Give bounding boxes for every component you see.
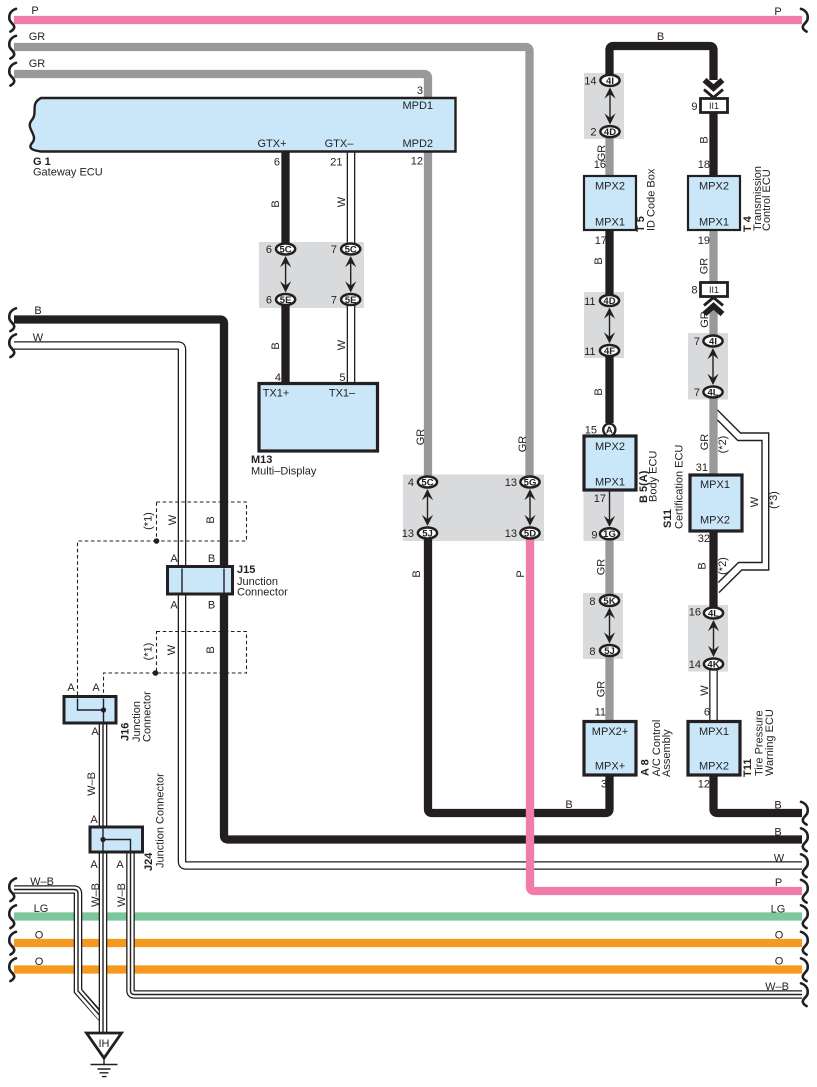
connector oval 5G pin13 bbox=[520, 477, 539, 489]
svg-text:TX1–: TX1– bbox=[329, 388, 356, 400]
svg-text:5C: 5C bbox=[421, 477, 433, 488]
svg-text:4: 4 bbox=[275, 372, 281, 384]
connector shield box 4I/4L bbox=[688, 333, 728, 400]
svg-text:S11: S11 bbox=[662, 509, 674, 528]
ECU S11 Certification ECU box bbox=[690, 475, 742, 531]
svg-text:Multi–Display: Multi–Display bbox=[251, 466, 317, 478]
wire GR 5J to A8 pin11 bbox=[605, 657, 613, 722]
svg-text:MPX+: MPX+ bbox=[595, 761, 625, 773]
ECU T5 ID Code Box bbox=[584, 176, 636, 230]
ECU T11 Tire Pressure Warning ECU box bbox=[688, 722, 740, 776]
wire LG bus bbox=[14, 912, 802, 920]
J16 internal step link bbox=[78, 699, 104, 722]
svg-text:Certification ECU: Certification ECU bbox=[674, 445, 686, 529]
break squiggle B left bbox=[9, 308, 16, 331]
S11 labels MPX1 MPX2 bbox=[700, 479, 730, 527]
svg-text:O: O bbox=[35, 930, 44, 942]
svg-text:MPX1: MPX1 bbox=[595, 217, 625, 229]
break squiggle P right bbox=[801, 9, 808, 32]
ground IH triangle bbox=[87, 1033, 122, 1058]
connector oval 4F pin11 bbox=[600, 345, 619, 357]
svg-text:5D: 5D bbox=[524, 528, 536, 539]
svg-text:13: 13 bbox=[402, 528, 414, 540]
svg-text:A: A bbox=[606, 425, 613, 436]
svg-text:W: W bbox=[699, 685, 711, 696]
svg-text:18: 18 bbox=[698, 159, 710, 171]
wire W 5E to M13 TX1- bbox=[347, 306, 356, 386]
svg-text:14: 14 bbox=[689, 659, 701, 671]
wire W left bus through J15 bbox=[12, 346, 182, 567]
connector oval 4L pin7 bbox=[703, 387, 722, 399]
svg-text:31: 31 bbox=[696, 462, 708, 474]
break squiggle GR2 left bbox=[9, 63, 16, 86]
svg-text:MPX1: MPX1 bbox=[699, 217, 729, 229]
svg-text:II1: II1 bbox=[709, 101, 719, 111]
connector pair arrow 5G/5D bbox=[524, 489, 535, 526]
svg-text:GTX+: GTX+ bbox=[257, 138, 286, 150]
J24 internal step link bbox=[103, 829, 131, 851]
svg-text:W–B: W–B bbox=[765, 981, 789, 993]
svg-text:Assembly: Assembly bbox=[661, 729, 673, 777]
svg-text:B: B bbox=[657, 31, 664, 43]
svg-text:A: A bbox=[90, 814, 98, 826]
svg-text:MPX1: MPX1 bbox=[595, 477, 625, 489]
svg-text:P: P bbox=[775, 877, 782, 889]
G1 name labels bbox=[33, 156, 103, 179]
svg-text:4D: 4D bbox=[604, 127, 616, 138]
wire GR G1 pin12 to 5C bbox=[424, 152, 432, 477]
svg-text:4I: 4I bbox=[606, 76, 614, 87]
wire B left bus through J15 bbox=[14, 320, 224, 567]
svg-text:(*1): (*1) bbox=[143, 643, 155, 661]
T4 labels MPX2 MPX1 bbox=[699, 181, 729, 229]
dashed box 2 labels bbox=[143, 643, 218, 661]
wire B 4F to A connector bbox=[605, 356, 613, 423]
svg-text:11: 11 bbox=[584, 296, 595, 308]
J16 name vertical bbox=[120, 691, 154, 742]
svg-text:B: B bbox=[205, 516, 217, 523]
svg-text:J24: J24 bbox=[143, 852, 155, 871]
break squiggle B bus right bbox=[801, 828, 808, 851]
svg-text:B: B bbox=[205, 646, 217, 653]
connector shield box 1G bbox=[584, 490, 625, 541]
svg-text:GR: GR bbox=[517, 436, 529, 453]
svg-text:A: A bbox=[170, 600, 178, 612]
break squiggle W-B right bbox=[801, 983, 808, 1006]
svg-text:Warning ECU: Warning ECU bbox=[764, 709, 776, 776]
svg-text:W: W bbox=[166, 644, 178, 655]
svg-text:17: 17 bbox=[595, 235, 607, 247]
T5 labels MPX2 MPX1 bbox=[595, 181, 625, 229]
break squiggle W bus right bbox=[801, 854, 808, 877]
M13 name labels bbox=[251, 454, 317, 478]
wire W GTX- to 5C bbox=[347, 150, 356, 244]
svg-text:9: 9 bbox=[591, 529, 597, 541]
connector oval 5K pin8 bbox=[600, 595, 619, 607]
svg-text:Control ECU: Control ECU bbox=[761, 169, 773, 231]
J24 internal node dot bbox=[100, 837, 105, 842]
svg-text:W: W bbox=[33, 332, 44, 344]
svg-text:5E: 5E bbox=[280, 295, 292, 306]
svg-text:IH: IH bbox=[99, 1038, 110, 1050]
svg-text:6: 6 bbox=[266, 244, 272, 256]
junction connector J16 box bbox=[64, 697, 116, 724]
svg-text:12: 12 bbox=[411, 156, 423, 168]
svg-text:A: A bbox=[67, 682, 75, 694]
chevron arrow into II1 pin9 bbox=[704, 80, 723, 98]
svg-text:5E: 5E bbox=[345, 295, 357, 306]
svg-text:B: B bbox=[411, 570, 423, 577]
svg-text:GR: GR bbox=[596, 559, 608, 576]
svg-text:O: O bbox=[35, 956, 44, 968]
svg-text:B: B bbox=[565, 799, 572, 811]
break squiggle O2 left bbox=[9, 958, 16, 981]
svg-text:5G: 5G bbox=[524, 477, 537, 488]
connector oval 5E pin7 bbox=[341, 294, 360, 306]
connector shield box 5K/5J bbox=[583, 593, 623, 659]
svg-text:11: 11 bbox=[595, 707, 606, 719]
wire B S11 pin32 to 4L bbox=[709, 531, 717, 607]
svg-text:MPX1: MPX1 bbox=[699, 726, 729, 738]
svg-text:5: 5 bbox=[339, 372, 345, 384]
svg-text:17: 17 bbox=[594, 493, 606, 505]
svg-text:MPX2+: MPX2+ bbox=[592, 726, 628, 738]
svg-text:Gateway ECU: Gateway ECU bbox=[33, 167, 103, 179]
J15 internal pin lines bbox=[182, 569, 224, 593]
connector oval 5J pin8 bbox=[600, 645, 619, 657]
svg-text:12: 12 bbox=[698, 779, 710, 791]
svg-text:GR: GR bbox=[699, 311, 711, 328]
svg-text:GTX–: GTX– bbox=[325, 138, 355, 150]
svg-text:(*3): (*3) bbox=[768, 491, 780, 509]
svg-text:8: 8 bbox=[589, 646, 595, 658]
connector pair arrow 5K/5J bbox=[604, 608, 615, 644]
wire W bypass (*3) around S11 bbox=[718, 410, 769, 593]
wire P 5D to bottom P bus bbox=[530, 538, 802, 891]
break squiggle LG right bbox=[801, 905, 808, 928]
svg-text:W–B: W–B bbox=[116, 883, 128, 907]
dashed box 1 labels bbox=[143, 512, 218, 530]
svg-text:(*1): (*1) bbox=[143, 512, 155, 530]
svg-text:W: W bbox=[167, 514, 179, 525]
svg-text:W: W bbox=[749, 496, 761, 507]
svg-text:16: 16 bbox=[594, 159, 606, 171]
svg-text:B: B bbox=[774, 800, 781, 812]
svg-text:Junction Connector: Junction Connector bbox=[155, 773, 167, 868]
svg-text:A: A bbox=[91, 726, 99, 738]
svg-text:GR: GR bbox=[415, 429, 427, 446]
A8 labels MPX2+ MPX+ bbox=[592, 726, 628, 773]
S11 name vertical left side bbox=[662, 445, 686, 529]
break squiggle W-B left bbox=[9, 878, 16, 901]
svg-text:MPX2: MPX2 bbox=[595, 181, 625, 193]
connector pair arrow 5C/5E left bbox=[280, 256, 291, 293]
T4 name vertical bbox=[742, 166, 773, 232]
connector pair arrow 4I/4D bbox=[604, 87, 615, 124]
svg-text:A: A bbox=[90, 859, 98, 871]
break squiggle O1 left bbox=[9, 932, 16, 955]
ECU B5A Body ECU box bbox=[584, 436, 636, 490]
ground stem and hatch bbox=[91, 1058, 118, 1077]
svg-text:B: B bbox=[34, 305, 41, 317]
svg-text:7: 7 bbox=[331, 295, 337, 307]
svg-text:B: B bbox=[774, 827, 781, 839]
node dot upper bbox=[154, 538, 160, 544]
break squiggle O1 right bbox=[801, 932, 808, 955]
connector oval 5C pin6 bbox=[276, 244, 295, 256]
svg-text:B: B bbox=[208, 553, 215, 565]
svg-text:B: B bbox=[593, 257, 605, 264]
connector pair arrow 5C/5E right bbox=[345, 256, 356, 293]
break squiggle P bus right bbox=[801, 880, 808, 903]
svg-text:A 8: A 8 bbox=[640, 759, 652, 776]
connector oval 5C pin7 bbox=[341, 244, 360, 256]
A8 name vertical bbox=[640, 720, 674, 777]
svg-text:MPD2: MPD2 bbox=[402, 138, 433, 150]
connector oval 5J pin13 bbox=[418, 528, 437, 540]
svg-text:GR: GR bbox=[29, 31, 46, 43]
inline connector II1 pin9 box bbox=[701, 99, 728, 113]
break squiggle W left bbox=[9, 334, 16, 357]
wire W 4K to T11 pin6 bbox=[709, 669, 718, 722]
svg-text:13: 13 bbox=[505, 477, 517, 489]
svg-text:1G: 1G bbox=[603, 529, 616, 540]
svg-text:5C: 5C bbox=[345, 244, 357, 255]
connector oval 5E pin6 bbox=[276, 294, 295, 306]
svg-text:W–B: W–B bbox=[86, 772, 98, 796]
svg-text:II1: II1 bbox=[709, 285, 719, 295]
wire B5A pin17 thin lead to 1G bbox=[609, 490, 611, 520]
svg-text:MPX2: MPX2 bbox=[700, 515, 730, 527]
svg-text:4L: 4L bbox=[707, 387, 718, 398]
wire GR bus to G1 MPD1 pin3 bbox=[14, 74, 428, 98]
wire B 5E to M13 TX1+ bbox=[281, 306, 289, 384]
connector oval 4D pin2 bbox=[600, 126, 619, 138]
wire W-B J16 through J24 to ground bbox=[99, 723, 108, 1033]
svg-text:GR: GR bbox=[596, 681, 608, 698]
break squiggle P left bbox=[9, 9, 16, 32]
wire W J15 to bottom W bus bbox=[182, 594, 804, 866]
node dot lower bbox=[153, 670, 159, 676]
wire B T11 pin12 to right edge bbox=[714, 775, 803, 813]
svg-text:6: 6 bbox=[266, 295, 272, 307]
svg-text:4F: 4F bbox=[604, 346, 615, 357]
ECU G1 Gateway ECU box bbox=[30, 98, 456, 152]
break squiggle O2 right bbox=[801, 958, 808, 981]
connector oval 5C pin4 bbox=[418, 477, 437, 489]
svg-text:B: B bbox=[270, 200, 282, 207]
junction connector J24 box bbox=[90, 827, 143, 852]
svg-text:O: O bbox=[775, 930, 784, 942]
svg-text:15: 15 bbox=[585, 425, 597, 437]
svg-text:7: 7 bbox=[694, 336, 700, 348]
svg-text:W: W bbox=[336, 339, 348, 350]
svg-text:Body ECU: Body ECU bbox=[648, 451, 660, 502]
svg-text:14: 14 bbox=[584, 75, 596, 87]
wire B T5 pin17 to 4D bbox=[605, 230, 613, 295]
svg-text:W–B: W–B bbox=[90, 883, 102, 907]
dashed option box (*1) upper bbox=[157, 502, 247, 541]
svg-text:GR: GR bbox=[699, 258, 711, 275]
svg-text:P: P bbox=[31, 5, 38, 17]
svg-text:11: 11 bbox=[584, 346, 595, 358]
connector oval 4I pin7 bbox=[703, 336, 722, 348]
svg-text:8: 8 bbox=[691, 285, 697, 297]
svg-text:W: W bbox=[336, 196, 348, 207]
svg-text:6: 6 bbox=[704, 707, 710, 719]
B5A name vertical bbox=[638, 451, 660, 503]
svg-text:6: 6 bbox=[274, 157, 280, 169]
wire O bus 1 bbox=[14, 939, 802, 947]
connector oval 4K pin14 bbox=[704, 659, 723, 671]
connector oval 4D pin11 bbox=[600, 295, 619, 307]
svg-text:MPX2: MPX2 bbox=[699, 761, 729, 773]
T11 labels MPX1 MPX2 bbox=[699, 726, 729, 773]
junction connector J15 box bbox=[168, 567, 233, 595]
svg-text:ID Code Box: ID Code Box bbox=[646, 168, 658, 231]
svg-text:M13: M13 bbox=[251, 454, 272, 466]
connector circle A pin15 bbox=[603, 424, 615, 437]
svg-text:8: 8 bbox=[589, 596, 595, 608]
connector shield box 4I/4D bbox=[584, 73, 624, 139]
wire B GTX+ to 5C bbox=[281, 152, 289, 244]
wire GR bus to 5G bbox=[14, 47, 530, 476]
break squiggle B branch right bbox=[801, 802, 808, 825]
svg-text:MPD1: MPD1 bbox=[402, 100, 433, 112]
svg-text:Connector: Connector bbox=[237, 587, 288, 599]
svg-text:4L: 4L bbox=[708, 608, 719, 619]
svg-text:3: 3 bbox=[417, 85, 423, 97]
svg-text:LG: LG bbox=[34, 903, 49, 915]
svg-text:W: W bbox=[774, 853, 785, 865]
svg-text:P: P bbox=[774, 6, 781, 18]
connector shield box 5C/5J 5G/5D bbox=[403, 475, 544, 542]
ECU A8 A/C Control Assembly box bbox=[584, 722, 636, 776]
svg-text:LG: LG bbox=[771, 904, 786, 916]
svg-text:16: 16 bbox=[689, 607, 701, 619]
connector shield box 4D/4F bbox=[584, 292, 624, 358]
svg-text:B: B bbox=[270, 342, 282, 349]
svg-text:A: A bbox=[92, 682, 100, 694]
connector oval 1G pin9 bbox=[600, 528, 619, 540]
svg-text:5J: 5J bbox=[604, 646, 615, 657]
svg-text:GR: GR bbox=[699, 434, 711, 451]
svg-text:4D: 4D bbox=[603, 296, 615, 307]
wire GR 1G to 5K bbox=[605, 540, 613, 594]
svg-text:B: B bbox=[697, 562, 709, 569]
wire GR 4L to S11 pin31 bbox=[709, 398, 717, 475]
svg-text:B: B bbox=[208, 600, 215, 612]
svg-text:Connector: Connector bbox=[142, 691, 154, 742]
ECU T4 Transmission Control ECU box bbox=[688, 176, 740, 230]
svg-text:B: B bbox=[699, 136, 711, 143]
chevron arrow into II1 pin8 bbox=[704, 298, 723, 315]
svg-text:4: 4 bbox=[408, 477, 414, 489]
ECU M13 Multi-Display box bbox=[259, 384, 378, 452]
svg-text:GR: GR bbox=[29, 58, 46, 70]
svg-text:W–B: W–B bbox=[30, 876, 54, 888]
svg-text:A: A bbox=[116, 859, 124, 871]
svg-text:J16: J16 bbox=[120, 723, 132, 741]
dashed link to J16 pin A left bbox=[78, 541, 157, 696]
wire GR 4D to T5 pin16 bbox=[605, 137, 613, 176]
connector pair arrow 4I/4L bbox=[707, 348, 718, 385]
svg-text:5C: 5C bbox=[280, 244, 292, 255]
svg-text:13: 13 bbox=[505, 528, 517, 540]
connector arrow into 1G bbox=[604, 516, 615, 527]
svg-text:B: B bbox=[593, 388, 605, 395]
svg-text:4I: 4I bbox=[709, 336, 717, 347]
svg-text:5K: 5K bbox=[603, 596, 615, 607]
break squiggle LG left bbox=[9, 905, 16, 928]
svg-text:MPX1: MPX1 bbox=[700, 479, 730, 491]
svg-text:7: 7 bbox=[694, 387, 700, 399]
B5A labels MPX2 MPX1 bbox=[595, 441, 625, 489]
svg-text:J15: J15 bbox=[237, 564, 255, 576]
wire B J15 to bottom B bus bbox=[224, 594, 802, 840]
svg-text:MPX2: MPX2 bbox=[699, 181, 729, 193]
svg-text:2: 2 bbox=[590, 127, 596, 139]
J15 name labels bbox=[237, 564, 288, 599]
wire B II1 to T4 pin18 bbox=[709, 112, 717, 177]
dashed option box (*1) lower bbox=[157, 632, 247, 674]
connector oval 5D pin13 bbox=[520, 528, 539, 540]
wire B 5J down across to A8 pin3 bbox=[428, 538, 610, 813]
svg-text:TX1+: TX1+ bbox=[263, 388, 290, 400]
svg-text:21: 21 bbox=[330, 157, 342, 169]
T11 name vertical bbox=[742, 709, 776, 777]
wire W-B J24 to bottom W-B bus bbox=[131, 852, 805, 995]
connector pair arrow 4L/4K bbox=[708, 620, 719, 657]
connector shield box 5C/5E bbox=[259, 242, 364, 308]
break squiggle GR1 left bbox=[9, 36, 16, 59]
svg-text:(*2): (*2) bbox=[717, 557, 729, 575]
svg-text:7: 7 bbox=[331, 244, 337, 256]
connector oval 4L pin16 bbox=[704, 608, 723, 620]
dashed link to J16 pin A right bbox=[104, 673, 156, 696]
J24 name vertical bbox=[143, 773, 167, 871]
T5 name vertical bbox=[635, 168, 658, 232]
connector shield box 4L/4K bbox=[688, 605, 728, 672]
wire P top bus bbox=[14, 16, 802, 24]
svg-text:MPX2: MPX2 bbox=[595, 441, 625, 453]
wire GR II1 to 4I bbox=[709, 310, 717, 335]
connector pair arrow 4D/4F bbox=[604, 308, 615, 344]
svg-text:3: 3 bbox=[601, 779, 607, 791]
svg-text:A: A bbox=[170, 553, 178, 565]
inline connector II1 pin8 box bbox=[701, 283, 728, 297]
svg-text:(*2): (*2) bbox=[717, 436, 729, 454]
svg-text:P: P bbox=[515, 570, 527, 577]
J16 internal node dot bbox=[101, 707, 106, 712]
svg-text:9: 9 bbox=[691, 101, 697, 113]
svg-text:19: 19 bbox=[698, 235, 710, 247]
svg-text:T11: T11 bbox=[742, 759, 754, 777]
svg-text:5J: 5J bbox=[422, 528, 433, 539]
wire O bus 2 bbox=[14, 965, 802, 973]
wire GR T4 pin19 to II1 bbox=[709, 230, 717, 283]
svg-text:32: 32 bbox=[698, 533, 710, 545]
svg-text:O: O bbox=[775, 956, 784, 968]
connector pair arrow 5C/5J bbox=[422, 489, 433, 526]
svg-text:4K: 4K bbox=[707, 659, 719, 670]
wire B top link 4I to II1 bbox=[610, 46, 714, 80]
wire W-B left stub to ground bbox=[12, 890, 102, 1020]
connector oval 4I pin14 bbox=[600, 75, 619, 87]
